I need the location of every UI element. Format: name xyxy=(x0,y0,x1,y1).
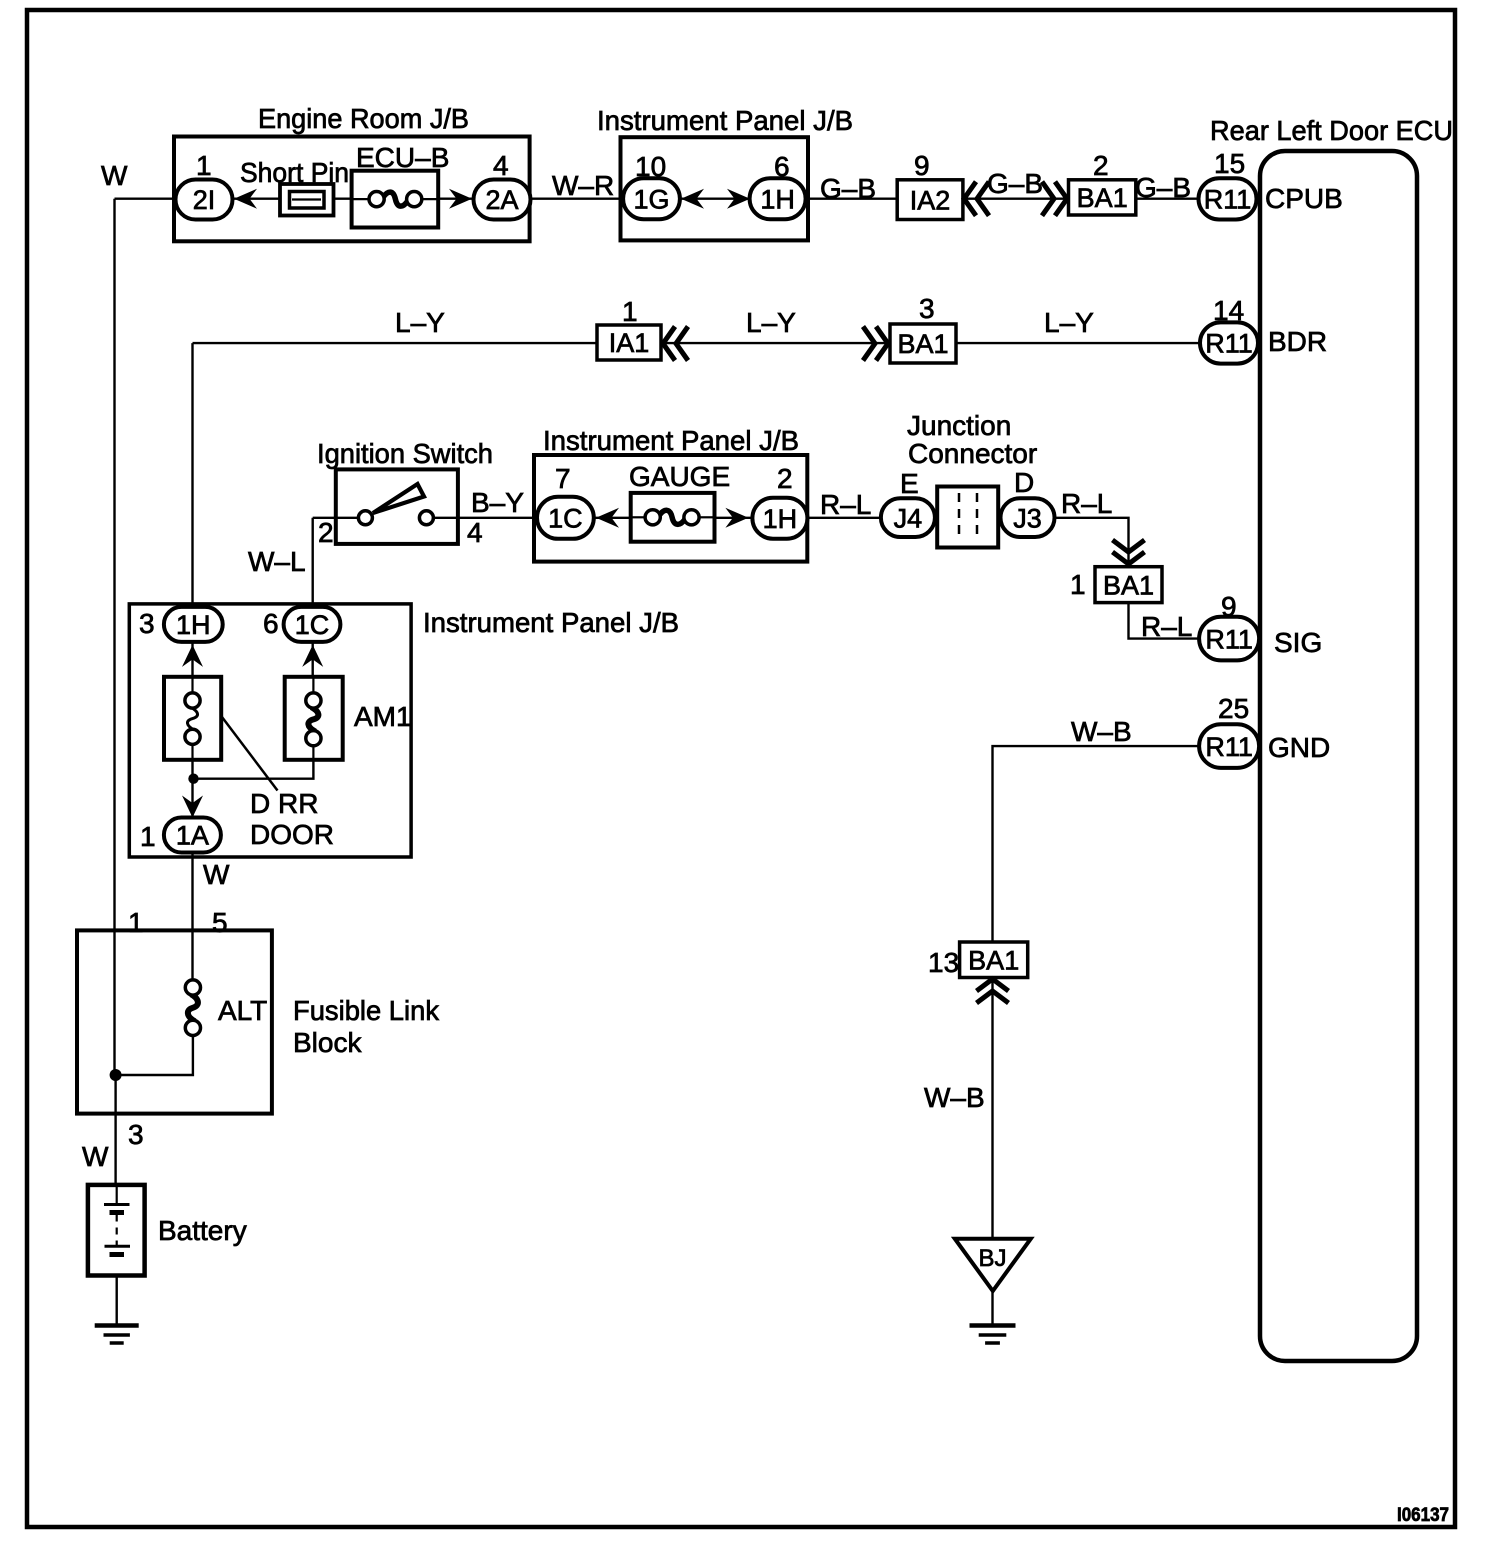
wire R-L: 1H gauge to J4 xyxy=(807,517,882,519)
junction dot in fusible link block xyxy=(110,1069,122,1081)
svg-text:9: 9 xyxy=(1221,591,1237,622)
connector 1H (gauge) xyxy=(752,498,807,539)
wire AM1 fuse down and left to junction dot xyxy=(194,760,314,779)
connector 1C (gauge) xyxy=(537,497,594,539)
wire W-B: BA1-13 down to BJ xyxy=(991,978,993,1240)
box Engine Room J/B xyxy=(174,137,530,242)
chevrons after IA2 xyxy=(964,182,989,216)
wire W: battery feed horizontal to 2I xyxy=(115,197,177,199)
connector R11 GND xyxy=(1199,724,1259,768)
arrow into 2A xyxy=(449,189,472,209)
junction connector box xyxy=(937,487,998,548)
svg-text:W–B: W–B xyxy=(1071,716,1132,747)
svg-text:G–B: G–B xyxy=(820,173,876,204)
wire R-L: J3 to corner and down to BA1 xyxy=(1054,518,1128,567)
svg-text:ECU–B: ECU–B xyxy=(356,142,449,173)
arrow toward 1G xyxy=(681,189,704,209)
svg-text:G–B: G–B xyxy=(1135,172,1191,203)
connector 1G xyxy=(623,178,680,219)
svg-text:R–L: R–L xyxy=(820,489,871,520)
fuse AM1 box xyxy=(285,677,343,760)
wire into ignition switch pin2 xyxy=(313,517,360,519)
fuse ECU-B xyxy=(352,171,439,228)
svg-text:BA1: BA1 xyxy=(1103,570,1154,600)
svg-text:Engine Room J/B: Engine Room J/B xyxy=(258,103,469,134)
svg-text:1H: 1H xyxy=(763,504,798,534)
wire L-Y: vertical from 1H of lower J/B xyxy=(191,343,193,608)
svg-text:B–Y: B–Y xyxy=(471,487,524,518)
arrow up to 1H lower xyxy=(182,645,203,667)
connector 1H (instrument panel top) xyxy=(750,178,806,219)
svg-text:Short Pin: Short Pin xyxy=(240,157,349,188)
svg-text:3: 3 xyxy=(139,608,155,639)
wire W-B: GND horizontal from R11 xyxy=(993,746,1200,942)
wire D RR DOOR fuse to junction dot xyxy=(191,760,193,818)
connector R11 SIG xyxy=(1199,617,1259,661)
chevrons before BA1 (row1) xyxy=(1042,182,1067,216)
connector 2A xyxy=(474,180,531,220)
box Instrument Panel J/B (gauge) xyxy=(534,455,807,562)
svg-text:1: 1 xyxy=(140,821,156,852)
svg-text:1: 1 xyxy=(196,150,212,181)
wire B-Y: ignition pin4 to 1C gauge xyxy=(432,517,538,519)
wire pin3 of fusible link block to battery xyxy=(114,1075,116,1205)
arrow toward 1H xyxy=(727,189,750,209)
svg-text:1C: 1C xyxy=(548,504,583,534)
fusible link AM1 fuse element xyxy=(306,693,321,746)
svg-text:L–Y: L–Y xyxy=(1044,307,1094,338)
svg-text:4: 4 xyxy=(493,150,509,181)
wire R-L: BA1 down and right to R11 SIG xyxy=(1129,603,1200,639)
svg-text:W–R: W–R xyxy=(552,170,614,201)
label leader line D RR DOOR xyxy=(221,716,277,791)
svg-text:6: 6 xyxy=(774,151,790,182)
svg-text:6: 6 xyxy=(263,608,279,639)
junction dot in lower J/B xyxy=(188,774,198,784)
svg-text:IA1: IA1 xyxy=(609,328,650,358)
svg-text:2: 2 xyxy=(318,517,334,548)
connector BA1 (pin2) xyxy=(1069,180,1136,215)
wire L-Y: horizontal to IA1 xyxy=(193,342,598,344)
svg-text:Instrument Panel J/B: Instrument Panel J/B xyxy=(597,105,853,136)
svg-text:9: 9 xyxy=(914,150,930,181)
wire 1A down to fusible link block pin 5 xyxy=(191,853,193,981)
svg-text:W–B: W–B xyxy=(924,1082,985,1113)
svg-text:DOOR: DOOR xyxy=(250,819,334,850)
svg-text:1G: 1G xyxy=(633,184,669,214)
svg-text:W: W xyxy=(101,160,128,191)
ground ground below BJ xyxy=(970,1326,1016,1344)
box Ignition Switch xyxy=(336,469,458,544)
svg-text:Junction: Junction xyxy=(907,410,1011,441)
ground ground below battery xyxy=(95,1326,139,1344)
svg-text:4: 4 xyxy=(467,517,483,548)
connector BA1 (pin1) xyxy=(1095,567,1162,603)
svg-text:1: 1 xyxy=(128,907,144,938)
wire from 1H lower oval to fuse xyxy=(191,642,193,677)
svg-text:J3: J3 xyxy=(1013,503,1042,533)
svg-text:D RR: D RR xyxy=(250,788,318,819)
connector 1C (lower) xyxy=(284,607,341,642)
svg-text:L–Y: L–Y xyxy=(746,307,796,338)
wire BJ to ground xyxy=(991,1291,993,1326)
Rear Left Door ECU box xyxy=(1260,151,1417,1361)
svg-text:BA1: BA1 xyxy=(968,946,1019,976)
svg-text:1A: 1A xyxy=(176,821,209,851)
fusible link ALT fusible link xyxy=(185,980,200,1036)
svg-text:1H: 1H xyxy=(760,184,795,214)
wire G-B: IA2 to BA1 xyxy=(963,197,1069,199)
svg-text:Fusible Link: Fusible Link xyxy=(293,995,440,1026)
wire W-L: ignition switch pin2 down to 1C xyxy=(312,518,314,608)
svg-text:D: D xyxy=(1014,467,1034,498)
short pin symbol xyxy=(280,184,334,216)
svg-text:Rear Left Door ECU: Rear Left Door ECU xyxy=(1210,115,1453,146)
chevrons above BA1 (pin1) xyxy=(1113,540,1145,564)
connector R11 BDR xyxy=(1200,322,1258,363)
svg-text:R11: R11 xyxy=(1204,185,1252,215)
svg-text:CPUB: CPUB xyxy=(1265,183,1343,214)
wire row1 through Engine Room J/B xyxy=(204,197,502,199)
svg-text:5: 5 xyxy=(212,907,228,938)
svg-text:Block: Block xyxy=(293,1027,362,1058)
box Instrument Panel J/B (lower) xyxy=(129,604,411,857)
connector J4 xyxy=(881,498,935,537)
wire G-B: 1H to IA2 xyxy=(805,197,897,199)
svg-text:W–L: W–L xyxy=(248,546,306,577)
svg-text:Instrument Panel J/B: Instrument Panel J/B xyxy=(423,607,679,638)
wire from 1C lower oval to AM1 fuse xyxy=(312,642,314,677)
svg-text:14: 14 xyxy=(1213,295,1244,326)
svg-text:Instrument Panel J/B: Instrument Panel J/B xyxy=(543,425,799,456)
arrow toward 1H gauge xyxy=(725,508,748,528)
svg-text:Connector: Connector xyxy=(908,438,1037,469)
svg-text:BJ: BJ xyxy=(978,1245,1006,1272)
arrow into 2I xyxy=(234,189,257,209)
svg-text:2I: 2I xyxy=(193,185,216,215)
wire 1G to 1H inside Instrument Panel J/B xyxy=(679,197,751,199)
svg-text:G–B: G–B xyxy=(987,168,1043,199)
svg-text:2A: 2A xyxy=(485,185,518,215)
wire ALT fuse to junction dot in fusible link block xyxy=(116,1035,193,1075)
svg-text:2: 2 xyxy=(777,463,793,494)
fusible link D RR DOOR fuse element xyxy=(185,693,200,745)
svg-text:1C: 1C xyxy=(295,610,330,640)
connector BA1 (pin13) xyxy=(960,942,1028,978)
svg-text:R11: R11 xyxy=(1205,732,1253,762)
ignition switch contacts and lever xyxy=(358,484,433,525)
wire L-Y: BA1 to R11 BDR xyxy=(956,342,1199,344)
svg-text:1: 1 xyxy=(1070,569,1086,600)
fuse GAUGE xyxy=(631,493,715,542)
svg-text:13: 13 xyxy=(928,947,959,978)
svg-text:R11: R11 xyxy=(1205,329,1253,359)
svg-text:J4: J4 xyxy=(894,503,923,533)
connector IA1 xyxy=(597,325,661,360)
arrow toward 1C gauge xyxy=(596,508,619,528)
arrow up to 1C lower xyxy=(302,645,323,667)
wire gauge row 1C to 1H xyxy=(594,517,753,519)
box Fusible Link Block xyxy=(77,930,272,1113)
svg-text:BA1: BA1 xyxy=(897,329,948,359)
arrow down to 1A xyxy=(182,796,203,818)
wire G-B: BA1 to R11 CPUB xyxy=(1136,197,1199,199)
chevrons below BA1 (pin13) xyxy=(977,979,1009,1003)
svg-text:IA2: IA2 xyxy=(910,185,951,215)
svg-text:15: 15 xyxy=(1214,148,1245,179)
svg-text:25: 25 xyxy=(1218,693,1249,724)
wire L-Y: IA1 to BA1 xyxy=(661,342,890,344)
wire W: left vertical battery feed xyxy=(113,199,115,1075)
svg-text:Ignition Switch: Ignition Switch xyxy=(317,438,493,469)
connector J3 xyxy=(1001,498,1055,537)
svg-text:SIG: SIG xyxy=(1274,627,1322,658)
svg-text:W: W xyxy=(203,859,230,890)
svg-text:7: 7 xyxy=(555,463,571,494)
svg-text:GAUGE: GAUGE xyxy=(629,461,730,492)
svg-text:3: 3 xyxy=(128,1119,144,1150)
connector BA1 (pin3) xyxy=(890,324,956,363)
svg-text:Battery: Battery xyxy=(158,1215,247,1246)
svg-text:10: 10 xyxy=(635,151,666,182)
svg-text:3: 3 xyxy=(919,293,935,324)
connector 2I xyxy=(176,180,233,220)
fuse D RR DOOR box xyxy=(164,677,221,760)
svg-text:1H: 1H xyxy=(176,610,211,640)
svg-text:2: 2 xyxy=(1093,150,1109,181)
connector 1A xyxy=(164,818,221,853)
svg-text:ALT: ALT xyxy=(218,995,267,1026)
svg-text:I06137: I06137 xyxy=(1397,1505,1449,1526)
connector IA2 xyxy=(897,180,963,220)
chevrons before BA1 (row2) xyxy=(863,327,888,361)
svg-text:R–L: R–L xyxy=(1061,488,1112,519)
svg-text:AM1: AM1 xyxy=(354,701,412,732)
svg-text:L–Y: L–Y xyxy=(395,307,445,338)
svg-text:BDR: BDR xyxy=(1268,326,1327,357)
chevrons after IA1 xyxy=(663,327,688,361)
svg-text:R–L: R–L xyxy=(1141,611,1192,642)
connector R11 CPUB xyxy=(1199,178,1257,219)
svg-text:BA1: BA1 xyxy=(1077,183,1128,213)
box Instrument Panel J/B (top) xyxy=(621,137,809,240)
ground connector BJ triangle xyxy=(955,1239,1031,1291)
svg-text:E: E xyxy=(900,468,919,499)
wire battery to ground xyxy=(115,1256,117,1326)
connector 1H (lower) xyxy=(164,607,223,642)
svg-text:R11: R11 xyxy=(1205,624,1253,654)
svg-text:1: 1 xyxy=(622,296,638,327)
battery symbol xyxy=(88,1185,145,1276)
svg-text:W: W xyxy=(82,1141,109,1172)
svg-text:GND: GND xyxy=(1268,732,1330,763)
wire W-R: 2A to 1G xyxy=(530,197,624,199)
